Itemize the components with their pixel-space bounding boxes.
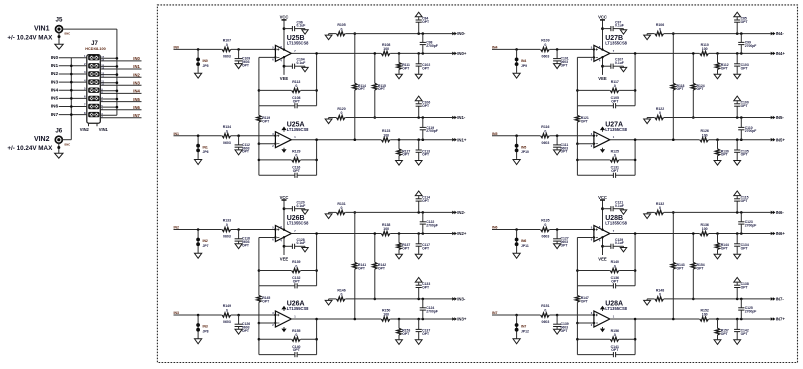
svg-text:IN5: IN5 bbox=[133, 97, 140, 102]
junction input / jumper tap bbox=[515, 48, 518, 51]
resistor R117 0 (feedback) bbox=[577, 80, 635, 93]
junction mid cap top bbox=[422, 298, 425, 301]
capacitor C121 0.1uF (VCC decoupling) bbox=[603, 201, 624, 212]
J7 row 1 contacts bbox=[88, 55, 99, 60]
junction VIN2 bus row 6 bbox=[70, 97, 73, 100]
resistor R135 0 0603 (series input) bbox=[541, 219, 550, 239]
pin 8 of op-amp (V+) bbox=[280, 45, 282, 49]
junction cross column B top bbox=[374, 52, 377, 55]
junction input C tap bbox=[556, 314, 559, 317]
resistor R123 100 (series output) bbox=[381, 129, 390, 142]
pin 4 of op-amp (V-) bbox=[280, 58, 282, 62]
port IN2- (off-page) bbox=[452, 210, 466, 215]
node IN4 (J7 row 5 left wire) bbox=[59, 89, 87, 91]
svg-text:OPT: OPT bbox=[422, 104, 430, 108]
resistor R134 0 0603 (series input) bbox=[222, 125, 231, 145]
svg-text:0: 0 bbox=[659, 111, 661, 115]
svg-text:OPT: OPT bbox=[242, 63, 250, 67]
net label IN0 (left) bbox=[51, 55, 59, 61]
svg-text:JP7: JP7 bbox=[203, 244, 209, 248]
connector J6 (BNC, VIN2) bbox=[55, 136, 70, 146]
power VEE stub (U28B) bbox=[598, 238, 607, 261]
svg-text:OPT: OPT bbox=[293, 279, 301, 283]
capacitor C99 2700pF (between rails) bbox=[738, 34, 756, 54]
junction mid cap bottom bbox=[740, 52, 743, 55]
resistor R147 OPT (interstage) bbox=[575, 286, 589, 323]
label U25A bbox=[287, 121, 305, 128]
junction VEE pin on op-amp bbox=[601, 56, 603, 58]
node IN1 (channel input net) bbox=[174, 132, 180, 136]
ground below C118 bbox=[235, 243, 242, 249]
net label IN5 (left) bbox=[51, 96, 59, 102]
wire resistor to op-amp +input bbox=[231, 229, 275, 231]
junction input C tap bbox=[556, 48, 559, 51]
junction VCC decoupling tap bbox=[601, 207, 604, 210]
ground left of R132 bbox=[644, 212, 651, 218]
svg-text:IN4: IN4 bbox=[521, 59, 526, 63]
svg-text:IN5-: IN5- bbox=[776, 115, 785, 120]
wire inverting input bbox=[259, 143, 276, 145]
wire minus rail bbox=[345, 298, 452, 300]
ground below R130 bbox=[714, 160, 721, 165]
junction cross column B top bbox=[374, 232, 377, 235]
wire feedback right column bbox=[316, 53, 318, 105]
wire inverting input bbox=[577, 322, 594, 324]
label LT1355CS8 (U27A) bbox=[605, 127, 627, 132]
label U27A bbox=[605, 121, 623, 128]
J7 row 3 contacts bbox=[88, 71, 99, 76]
junction cross column B top bbox=[692, 52, 695, 55]
capacitor C140 OPT (feedback) bbox=[259, 345, 317, 357]
schematic block border bbox=[157, 5, 797, 363]
pin 2 of J7 bbox=[84, 62, 86, 66]
junction feedback R left bbox=[258, 89, 261, 92]
ground below C117 bbox=[415, 254, 422, 259]
svg-text:R134: R134 bbox=[223, 125, 231, 129]
wire input to series resistor bbox=[492, 229, 540, 231]
svg-text:OPT: OPT bbox=[422, 247, 430, 251]
wire resistor to op-amp +input bbox=[231, 314, 275, 316]
svg-text:VEE: VEE bbox=[280, 256, 289, 261]
jumper JP8 (IN3) bbox=[196, 315, 208, 338]
pin 5 of J7 bbox=[84, 86, 86, 90]
svg-text:IN7+: IN7+ bbox=[776, 317, 786, 322]
junction cross column A top bbox=[672, 211, 675, 214]
resistor R149 0 0603 (series input) bbox=[222, 304, 231, 324]
resistor R118 OPT (cross column) bbox=[671, 34, 684, 140]
J7 row 2 contacts bbox=[88, 63, 99, 68]
junction mid cap top bbox=[422, 211, 425, 214]
net label IN1 (right of J7) bbox=[133, 64, 140, 69]
resistor R107 0 0603 (series input) bbox=[222, 39, 231, 59]
ground below jumper JP9 bbox=[513, 72, 520, 78]
svg-text:JP12: JP12 bbox=[521, 329, 529, 333]
resistor R105 0 (minus rail) bbox=[329, 23, 346, 36]
junction feedback R right bbox=[634, 89, 637, 92]
capacitor C107 0.1uF (VEE decoupling) bbox=[603, 58, 624, 69]
port IN7- (off-page) bbox=[771, 297, 785, 302]
junction output/feedback bbox=[315, 138, 318, 141]
ground below jumper JP8 bbox=[195, 338, 202, 344]
junction mid cap bottom bbox=[422, 52, 425, 55]
svg-text:OPT: OPT bbox=[378, 87, 386, 91]
svg-text:2700pF: 2700pF bbox=[426, 129, 438, 133]
resistor R140 0 (feedback) bbox=[577, 260, 635, 273]
ground below R112 bbox=[714, 74, 721, 79]
svg-text:0: 0 bbox=[659, 27, 661, 31]
svg-text:VEE: VEE bbox=[598, 76, 607, 81]
junction cross column B top bbox=[692, 232, 695, 235]
svg-text:0.1uF: 0.1uF bbox=[615, 61, 624, 65]
resistor R138 100 (series output) bbox=[381, 223, 390, 236]
junction mid cap bottom bbox=[422, 232, 425, 235]
ground right of C128 bbox=[302, 246, 308, 252]
power V+ arrow (U28A) bbox=[600, 306, 605, 311]
junction VEE decoupling tap bbox=[283, 245, 286, 248]
port IN4+ (off-page) bbox=[771, 51, 786, 56]
junction VCC decoupling tap bbox=[601, 27, 604, 30]
junction down cap bbox=[417, 138, 420, 141]
junction input / jumper tap bbox=[197, 228, 200, 231]
wire inverting input bbox=[259, 56, 276, 58]
junction feedback R left bbox=[576, 269, 579, 272]
svg-text:IN3-: IN3- bbox=[457, 297, 466, 302]
svg-text:0.1uF: 0.1uF bbox=[297, 204, 306, 208]
wire J7 row 3 signal out bbox=[100, 76, 141, 78]
junction shunt R bbox=[716, 138, 719, 141]
J7 row 8 contacts bbox=[88, 112, 99, 117]
svg-text:0: 0 bbox=[226, 43, 228, 47]
wire output bbox=[291, 52, 452, 54]
op-amp U27B LT1355CS8 bbox=[591, 45, 615, 61]
label U26B bbox=[287, 215, 305, 222]
svg-text:LT1355CS8: LT1355CS8 bbox=[287, 41, 309, 46]
resistor R132 0 (minus rail) bbox=[647, 202, 664, 215]
junction feedback R right bbox=[634, 338, 637, 341]
port IN3+ (off-page) bbox=[452, 317, 467, 322]
junction cross column A bottom bbox=[672, 318, 675, 321]
resistor R125 0 (feedback) bbox=[577, 150, 635, 163]
capacitor C114 OPT (minus rail to gnd) bbox=[416, 195, 431, 212]
wire feedback left column bbox=[258, 144, 260, 176]
svg-text:0: 0 bbox=[614, 154, 616, 158]
svg-text:IN6: IN6 bbox=[133, 105, 140, 110]
svg-text:OPT: OPT bbox=[402, 66, 410, 70]
svg-text:0.1uF: 0.1uF bbox=[615, 24, 624, 28]
svg-text:VEE: VEE bbox=[598, 256, 607, 261]
svg-text:OPT: OPT bbox=[242, 244, 250, 248]
svg-text:OPT: OPT bbox=[561, 150, 569, 154]
junction up cap bbox=[736, 211, 739, 214]
wire resistor to op-amp +input bbox=[550, 48, 594, 50]
svg-text:VCC: VCC bbox=[598, 15, 607, 20]
wire input to series resistor bbox=[492, 314, 540, 316]
svg-text:OPT: OPT bbox=[422, 20, 430, 24]
resistor R154 OPT (cross column) bbox=[691, 234, 705, 299]
svg-text:0: 0 bbox=[614, 333, 616, 337]
svg-text:IN1-: IN1- bbox=[457, 115, 466, 120]
svg-text:VIN1: VIN1 bbox=[34, 26, 50, 33]
wire J6 ground stub bbox=[58, 143, 60, 153]
capacitor C112 0603 OPT (input shunt) bbox=[235, 136, 250, 154]
svg-text:IN1+: IN1+ bbox=[457, 137, 467, 142]
svg-text:OPT: OPT bbox=[262, 119, 270, 123]
resistor R146 0 (minus rail) bbox=[329, 288, 346, 301]
svg-text:VIN2: VIN2 bbox=[34, 136, 50, 143]
resistor R124 OPT (cross column) bbox=[691, 53, 705, 117]
wire J7 row 6 signal out bbox=[100, 101, 141, 103]
svg-text:OPT: OPT bbox=[422, 285, 430, 289]
resistor R129 0 (feedback) bbox=[259, 150, 317, 163]
svg-text:0: 0 bbox=[226, 309, 228, 313]
wire feedback right column bbox=[316, 319, 318, 355]
svg-text:R135: R135 bbox=[541, 219, 549, 223]
capacitor C138 OPT (minus rail to gnd) bbox=[734, 282, 749, 299]
wire minus rail bbox=[664, 117, 771, 119]
ground above C115 bbox=[734, 191, 741, 196]
svg-text:OPT: OPT bbox=[378, 266, 386, 270]
ground below jumper JP6 bbox=[195, 159, 202, 165]
pin 8 of op-amp (V+) bbox=[599, 225, 601, 229]
svg-text:OPT: OPT bbox=[561, 63, 569, 67]
junction input / jumper tap bbox=[197, 314, 200, 317]
svg-text:IN4: IN4 bbox=[133, 89, 140, 94]
resistor R142 OPT (cross column) bbox=[373, 234, 387, 299]
wire minus rail bbox=[345, 211, 452, 213]
op-amp U27A LT1355CS8 bbox=[591, 132, 615, 148]
svg-text:VCC: VCC bbox=[280, 15, 289, 20]
ground left of R120 bbox=[325, 118, 332, 124]
junction feedback R right bbox=[634, 159, 637, 162]
J7 row 7 contacts bbox=[88, 104, 99, 109]
net label IN2 (left) bbox=[51, 71, 59, 77]
wire inverting input bbox=[577, 56, 594, 58]
junction shunt R bbox=[716, 318, 719, 321]
junction mid cap bottom bbox=[740, 138, 743, 141]
power VEE stub (U27B) bbox=[598, 58, 607, 81]
wire minus rail bbox=[345, 117, 452, 119]
svg-text:0.1uF: 0.1uF bbox=[615, 204, 624, 208]
svg-text:IN5: IN5 bbox=[51, 96, 59, 102]
resistor R122 0 (minus rail) bbox=[647, 107, 664, 120]
jumper JP9 (IN4) bbox=[515, 49, 527, 72]
wire feedback right column bbox=[634, 140, 636, 176]
capacitor C110 2700pF (between rails) bbox=[738, 118, 756, 140]
wire feedback left column bbox=[258, 57, 260, 105]
junction input / jumper tap bbox=[197, 134, 200, 137]
junction output/feedback bbox=[315, 52, 318, 55]
ground below C102 bbox=[415, 74, 422, 79]
svg-text:VIN2: VIN2 bbox=[80, 127, 90, 132]
junction cross column B bottom bbox=[374, 116, 377, 119]
port IN3- (off-page) bbox=[452, 297, 466, 302]
svg-text:OPT: OPT bbox=[422, 153, 430, 157]
connector J5 (BNC, VIN1) bbox=[56, 26, 71, 36]
connector J7 body bbox=[87, 55, 101, 124]
node IN2 (channel input net) bbox=[174, 226, 180, 230]
svg-text:IN4-: IN4- bbox=[776, 31, 785, 36]
svg-text:0: 0 bbox=[226, 223, 228, 227]
label U26A bbox=[287, 301, 305, 308]
pin numbers J7 row 3 right bbox=[101, 72, 104, 79]
junction VIN2 bus row 7 bbox=[70, 105, 73, 108]
junction feedback R right bbox=[315, 338, 318, 341]
capacitor C102 OPT (plus rail to gnd) bbox=[416, 53, 431, 73]
junction down cap bbox=[736, 138, 739, 141]
pin 4 of op-amp (V-) bbox=[599, 58, 601, 62]
capacitor C108 OPT (feedback) bbox=[259, 96, 317, 108]
svg-text:R107: R107 bbox=[223, 39, 231, 43]
capacitor C126 0603 OPT (input shunt) bbox=[235, 315, 251, 333]
jumper JP10 (IN5) bbox=[515, 136, 529, 159]
net label IN5 (right of J7) bbox=[133, 97, 140, 102]
svg-text:+/- 10.24V MAX: +/- 10.24V MAX bbox=[7, 145, 53, 152]
wire minus rail bbox=[664, 33, 771, 35]
resistor R112 OPT (shunt) bbox=[715, 53, 728, 73]
node IN4 (channel input net) bbox=[492, 46, 498, 50]
power VCC stub (U25B) bbox=[280, 15, 289, 49]
svg-text:OPT: OPT bbox=[697, 87, 705, 91]
svg-text:0: 0 bbox=[341, 111, 343, 115]
capacitor C119 2700pF (between rails) bbox=[420, 118, 438, 140]
wire inverting input bbox=[577, 143, 594, 145]
svg-text:0: 0 bbox=[226, 129, 228, 133]
svg-text:IN7: IN7 bbox=[133, 113, 140, 118]
wire J7 row 3 to VIN1 bus bbox=[100, 74, 117, 76]
label U27B bbox=[605, 35, 623, 42]
port IN4- (off-page) bbox=[771, 31, 785, 36]
resistor R109 0 0603 (series input) bbox=[541, 39, 550, 59]
jumper JP6 (IN1) bbox=[196, 136, 208, 159]
capacitor C115 OPT (minus rail to gnd) bbox=[734, 195, 749, 212]
junction VIN2 bus row 8 bbox=[70, 113, 73, 116]
op-amp U25A LT1355CS8 bbox=[272, 132, 296, 148]
capacitor C122 2700pF (between rails) bbox=[420, 212, 438, 233]
junction VEE pin on op-amp bbox=[283, 236, 285, 238]
svg-text:0: 0 bbox=[295, 333, 297, 337]
wire J7 row 2 signal out bbox=[100, 68, 141, 70]
capacitor C109 0603 OPT (input shunt) bbox=[235, 49, 251, 67]
pin 7 of J7 bbox=[84, 103, 86, 107]
svg-text:OPT: OPT bbox=[293, 99, 301, 103]
svg-text:0: 0 bbox=[544, 43, 546, 47]
capacitor C133 OPT (minus rail to gnd) bbox=[416, 282, 431, 299]
wire inverting input bbox=[259, 237, 276, 239]
svg-text:OPT: OPT bbox=[611, 279, 619, 283]
svg-text:IN2: IN2 bbox=[133, 72, 140, 77]
wire feedback left column bbox=[258, 323, 260, 355]
ground above C85 bbox=[734, 12, 741, 17]
wire output bbox=[610, 139, 771, 141]
svg-text:100: 100 bbox=[383, 47, 389, 51]
wire J7 row 4 to VIN1 bus bbox=[100, 82, 117, 84]
resistor R139 0 (feedback) bbox=[259, 260, 317, 273]
resistor R155 0 (feedback) bbox=[259, 329, 317, 342]
svg-text:100: 100 bbox=[702, 47, 708, 51]
ground left of R106 bbox=[644, 34, 651, 40]
pin 4 of op-amp (V-) bbox=[599, 239, 601, 243]
svg-text:0: 0 bbox=[341, 293, 343, 297]
net label IN7 (right of J7) bbox=[133, 113, 140, 118]
wire feedback left column bbox=[576, 323, 578, 355]
junction feedback R left bbox=[576, 159, 579, 162]
ground left of R105 bbox=[325, 34, 332, 40]
power VCC stub (U27B) bbox=[598, 15, 607, 49]
ground below jumper JP12 bbox=[513, 338, 520, 344]
capacitor C136 OPT (feedback) bbox=[577, 276, 635, 288]
resistor R115 OPT (cross column) bbox=[373, 53, 386, 117]
port IN5+ (off-page) bbox=[771, 137, 786, 142]
junction mid cap bottom bbox=[422, 318, 425, 321]
ground left of R131 bbox=[325, 212, 332, 218]
wire J7 row 1 to VIN1 bus bbox=[100, 57, 117, 59]
svg-text:J5: J5 bbox=[56, 17, 63, 24]
wire feedback left column bbox=[258, 238, 260, 286]
svg-text:LT1355CS8: LT1355CS8 bbox=[605, 306, 627, 311]
wire output bbox=[610, 233, 771, 235]
capacitor C98 2700pF (between rails) bbox=[420, 34, 438, 54]
junction VCC decoupling tap bbox=[283, 27, 286, 30]
junction input C tap bbox=[237, 228, 240, 231]
wire VIN2 from J6 bbox=[62, 139, 71, 141]
wire J7 row 7 to VIN1 bus bbox=[100, 106, 117, 108]
wire VIN1 from J5 bbox=[62, 28, 117, 30]
svg-text:IN0: IN0 bbox=[203, 59, 208, 63]
junction down cap bbox=[417, 52, 420, 55]
label LT1355CS8 (U28A) bbox=[605, 306, 627, 311]
wire inverting input bbox=[259, 322, 276, 324]
capacitor C101 0603 OPT (input shunt) bbox=[553, 49, 569, 67]
ground above C84 bbox=[415, 12, 422, 17]
svg-text:IN6+: IN6+ bbox=[776, 231, 786, 236]
ground below jumper JP7 bbox=[195, 253, 202, 259]
svg-text:HCDX8-100: HCDX8-100 bbox=[85, 47, 105, 51]
svg-text:OPT: OPT bbox=[611, 348, 619, 352]
junction feedback R left bbox=[258, 269, 261, 272]
svg-text:2700pF: 2700pF bbox=[745, 310, 757, 314]
node IN3 (J7 row 4 left wire) bbox=[59, 81, 87, 83]
resistor R141 OPT (cross column) bbox=[353, 212, 367, 319]
wire resistor to op-amp +input bbox=[550, 229, 594, 231]
svg-text:OPT: OPT bbox=[358, 87, 366, 91]
wire minus rail bbox=[664, 298, 771, 300]
J7 row 6 contacts bbox=[88, 96, 99, 101]
wire input to series resistor bbox=[174, 314, 222, 316]
resistor R121 OPT (interstage) bbox=[575, 106, 589, 144]
svg-text:2700pF: 2700pF bbox=[426, 310, 438, 314]
svg-text:OPT: OPT bbox=[741, 153, 749, 157]
svg-text:100: 100 bbox=[702, 313, 708, 317]
net label IN0 (right of J7) bbox=[133, 56, 140, 61]
ground right of C104 bbox=[302, 66, 308, 72]
svg-text:OPT: OPT bbox=[721, 332, 729, 336]
pin 1 of J7 bbox=[84, 54, 86, 58]
capacitor C84 OPT (minus rail to gnd) bbox=[416, 17, 430, 34]
pin numbers J7 row 2 right bbox=[101, 63, 104, 70]
op-amp U26B LT1355CS8 bbox=[272, 226, 296, 242]
svg-text:+/- 10.24V MAX: +/- 10.24V MAX bbox=[7, 34, 53, 41]
ground below R137 bbox=[396, 254, 403, 259]
resistor R144 OPT (shunt) bbox=[715, 234, 729, 254]
junction VIN1 bus row 6 bbox=[116, 98, 119, 101]
node IN1 (J7 row 2 left wire) bbox=[59, 65, 87, 67]
capacitor C120 0.1uF (VCC decoupling) bbox=[284, 201, 305, 212]
label LT1355CS8 (U25B) bbox=[287, 41, 309, 46]
svg-text:OPT: OPT bbox=[741, 199, 749, 203]
resistor R156 0 (feedback) bbox=[577, 329, 635, 342]
junction VIN2 bus row 5 bbox=[70, 89, 73, 92]
resistor R111 OPT (shunt) bbox=[397, 53, 410, 73]
